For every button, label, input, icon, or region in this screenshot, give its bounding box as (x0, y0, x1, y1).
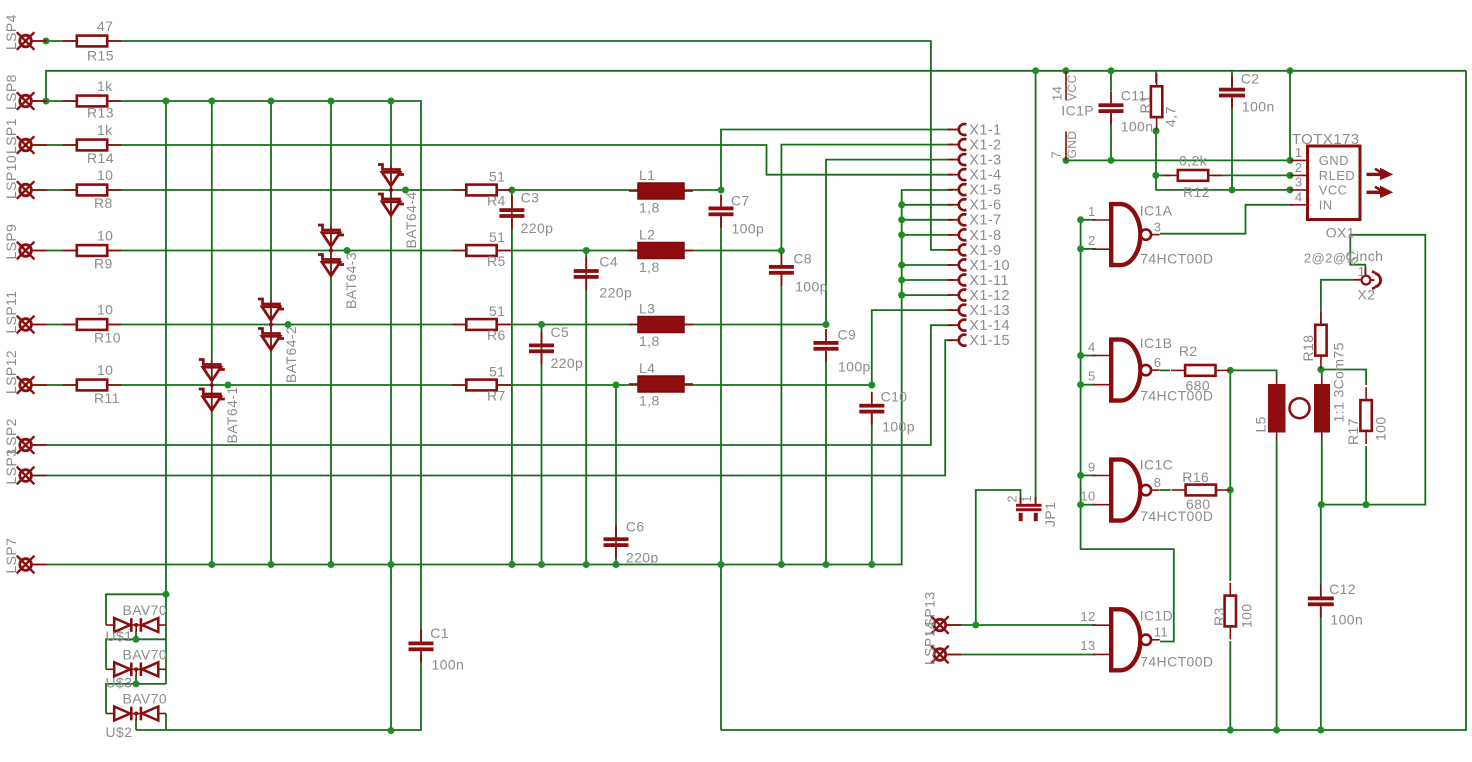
svg-text:8: 8 (1154, 475, 1162, 490)
wire LSP14 row (946, 654, 1096, 656)
svg-text:TOTX173: TOTX173 (1292, 131, 1360, 148)
junction LSP13 (972, 622, 979, 629)
connector pin X1-6 (948, 198, 1002, 214)
svg-text:47: 47 (97, 18, 113, 34)
svg-text:R13: R13 (87, 105, 114, 121)
svg-text:IC1A: IC1A (1140, 203, 1173, 219)
svg-text:100p: 100p (882, 419, 915, 435)
junction gnd rail (388, 561, 395, 568)
connector pin X1-5 (948, 183, 1002, 199)
resistor R2 () (1171, 365, 1229, 376)
inductor L2 (1,8) (629, 227, 693, 276)
pad LSP4 (17, 32, 47, 50)
pad LSP14 (931, 646, 961, 664)
connector pin X1-9 (948, 243, 1002, 259)
junction gnd rail (538, 561, 545, 568)
svg-text:C4: C4 (599, 254, 618, 270)
junction L2 row (344, 247, 351, 254)
dual schottky diode BAT64-4 (378, 165, 419, 249)
resistor R17 (1360, 387, 1371, 444)
wire ground tap X1-11 (902, 279, 953, 281)
svg-text:R2: R2 (1179, 343, 1198, 359)
svg-text:1k: 1k (97, 78, 113, 94)
svg-text:GND: GND (1319, 153, 1349, 168)
jumper JP1 (1006, 495, 1059, 527)
wire R3 bottom to rail (1229, 641, 1231, 730)
power pin IC1P GND (pin 7) (1049, 131, 1080, 161)
svg-text:10: 10 (97, 302, 113, 318)
svg-text:100n: 100n (1242, 99, 1275, 115)
svg-text:X1-7: X1-7 (969, 213, 1001, 229)
junction VCC row (1287, 186, 1294, 193)
resistor R13 (1k) (63, 78, 121, 121)
pad LSP13 (931, 616, 961, 634)
svg-text:LSP11: LSP11 (3, 291, 19, 334)
junction gnd X1 bus (898, 262, 905, 269)
connector X2 (Cinch) (1354, 268, 1381, 289)
connector pin X1-2 (948, 137, 1002, 153)
svg-text:Cinch: Cinch (1346, 248, 1384, 264)
svg-text:C10: C10 (881, 389, 908, 405)
resistor R3 (1225, 583, 1236, 640)
junction L2 row (778, 247, 785, 254)
resistor R8 (10) (63, 167, 121, 211)
svg-text:74HCT00D: 74HCT00D (1140, 388, 1213, 404)
junction LSP8 (268, 98, 275, 105)
pad LSP8 (17, 92, 47, 110)
connector pin X1-1 (948, 122, 1002, 138)
svg-text:C12: C12 (1329, 581, 1356, 597)
svg-text:L1: L1 (639, 167, 655, 183)
junction gnd X1 bus (898, 216, 905, 223)
wire U$2 loop (106, 684, 166, 714)
svg-text:BAT64-3: BAT64-3 (343, 252, 359, 309)
connector pin X1-7 (948, 213, 1002, 229)
junction gnd rail (268, 561, 275, 568)
wire L4 row (32, 384, 872, 386)
svg-text:C3: C3 (521, 190, 540, 206)
svg-text:L5: L5 (1253, 416, 1269, 432)
wire C6 column (615, 385, 617, 565)
junction VCC rail (1287, 67, 1294, 74)
svg-text:100n: 100n (432, 657, 465, 673)
svg-text:100n: 100n (1330, 612, 1363, 628)
connector pin X1-14 (948, 318, 1011, 334)
svg-text:14: 14 (1050, 86, 1065, 101)
svg-text:1k: 1k (97, 122, 113, 138)
wire ground tap X1-12 (902, 294, 953, 296)
wire U$3 right leg (165, 639, 167, 684)
svg-text:R17: R17 (1345, 418, 1361, 445)
wire LSP1 row to X1-4 (32, 145, 953, 175)
svg-text:LSP9: LSP9 (3, 224, 19, 260)
svg-text:X2: X2 (1358, 287, 1376, 303)
junction LSP8 (163, 98, 170, 105)
wire LSP8 row (32, 101, 421, 642)
svg-text:U$2: U$2 (106, 724, 133, 740)
junction gnd rail (778, 561, 785, 568)
resistor R18 (1315, 312, 1326, 369)
wire LSP2 row to X1-14 (32, 325, 953, 445)
svg-text:1:1 3Com75: 1:1 3Com75 (1331, 342, 1347, 422)
nand gate IC1C (74HCT00) (1080, 457, 1213, 525)
capacitor C6 (220p) (604, 519, 659, 566)
svg-text:R11: R11 (94, 390, 120, 406)
svg-text:IC1D: IC1D (1140, 608, 1174, 624)
resistor R12 () (1164, 170, 1222, 181)
pad LSP2 (17, 436, 47, 454)
svg-text:IC1P: IC1P (1061, 103, 1094, 119)
svg-text:220p: 220p (551, 355, 584, 371)
junction LSP8 (328, 98, 335, 105)
svg-text:C2: C2 (1241, 71, 1260, 87)
svg-text:C6: C6 (626, 519, 645, 535)
dual diode U$1 (BAV70) (106, 602, 168, 644)
dual schottky diode BAT64-1 (199, 360, 240, 444)
wire IC1B out to R2 (1160, 369, 1170, 371)
junction BAV70 (133, 636, 140, 643)
junction gnd rail (328, 561, 335, 568)
svg-text:100p: 100p (838, 359, 871, 375)
svg-text:1: 1 (1020, 495, 1034, 502)
wire LSP13 row (946, 624, 1096, 626)
junction gnd rail (208, 561, 215, 568)
wire JP1 pin1 riser (1035, 71, 1037, 500)
svg-text:X1-8: X1-8 (969, 228, 1001, 244)
junction VCC rail (1062, 67, 1069, 74)
svg-text:X1-3: X1-3 (969, 153, 1001, 169)
svg-text:C8: C8 (793, 251, 812, 267)
pad LSP10 (17, 181, 47, 199)
svg-text:220p: 220p (599, 285, 632, 301)
wire C2 bottom riser (1231, 99, 1233, 190)
wire IC1B in1 tap (1081, 355, 1096, 357)
svg-text:74HCT00D: 74HCT00D (1140, 251, 1213, 267)
svg-text:LSP14: LSP14 (922, 621, 938, 665)
svg-text:100p: 100p (795, 279, 828, 295)
wire L5 right top to R18 (1320, 370, 1323, 378)
svg-text:IC1B: IC1B (1140, 335, 1173, 351)
junction bottom rail (1227, 727, 1234, 734)
wire R12 to TOTX pin2 (1212, 174, 1293, 176)
dual schottky diode BAT64-3 (318, 225, 359, 309)
svg-text:X1-11: X1-11 (969, 273, 1009, 289)
svg-text:R9: R9 (94, 256, 113, 272)
wire BAT64-2 column (270, 101, 272, 565)
wire IC1C out to R16 (1160, 489, 1171, 491)
junction gate bus (1077, 501, 1084, 508)
wire IC1P GND rail (1066, 159, 1293, 161)
junction VCC row (1229, 186, 1236, 193)
junction L3 row (285, 321, 292, 328)
resistor R4 (51) (452, 169, 510, 209)
junction gate bus (1077, 245, 1084, 252)
TOTX pin1 riser (1289, 71, 1291, 161)
wire ground tap X1-7 (902, 219, 953, 221)
junction bottom rail (1273, 727, 1280, 734)
wire R1 top stub (1155, 71, 1157, 83)
junction L1 row (508, 187, 515, 194)
resistor R11 (10) (63, 362, 121, 406)
wire R16 out (1230, 489, 1231, 491)
svg-text:X1-13: X1-13 (969, 303, 1010, 319)
capacitor C4 (220p) (574, 254, 632, 301)
svg-text:BAV70: BAV70 (123, 646, 168, 662)
svg-text:51: 51 (489, 229, 505, 245)
svg-text:L4: L4 (639, 360, 655, 376)
junction gnd X1 bus (898, 277, 905, 284)
junction L2 row (583, 247, 590, 254)
resistor R9 (10) (63, 228, 121, 272)
junction LSP8 (388, 98, 395, 105)
inductor L1 (1,8) (629, 167, 693, 216)
svg-text:12: 12 (1080, 609, 1095, 624)
svg-text:R7: R7 (487, 388, 506, 404)
connector pin X1-12 (948, 288, 1011, 304)
svg-text:1,8: 1,8 (639, 393, 660, 409)
svg-text:R18: R18 (1300, 335, 1316, 362)
svg-text:1,8: 1,8 (639, 259, 660, 275)
wire C4 column (585, 251, 587, 565)
svg-text:BAT64-2: BAT64-2 (283, 326, 299, 383)
wire BAT64-3 column (330, 101, 332, 565)
svg-text:X1-4: X1-4 (969, 168, 1001, 184)
wire L5 right bottom / C12 column (1321, 439, 1322, 585)
svg-text:11: 11 (1154, 625, 1168, 640)
svg-text:X1-2: X1-2 (969, 137, 1001, 153)
svg-text:10: 10 (97, 228, 113, 244)
junction gate bus (1077, 352, 1084, 359)
junction gnd rail (613, 561, 620, 568)
svg-text:100n: 100n (1121, 119, 1154, 135)
svg-text:100: 100 (1373, 416, 1389, 441)
wire C10 lower column (871, 413, 873, 564)
svg-text:220p: 220p (626, 550, 659, 566)
wire C11 column top (1110, 71, 1112, 91)
connector pin X1-15 (948, 333, 1011, 349)
light arrow 1 (1367, 168, 1393, 179)
nand gate IC1D (74HCT00) (1080, 608, 1213, 671)
svg-text:10: 10 (1080, 488, 1095, 503)
junction gate bus (1077, 216, 1084, 223)
svg-text:IC1C: IC1C (1140, 457, 1174, 473)
wire U$3 centre stub (135, 675, 137, 684)
junction gnd rail (823, 561, 830, 568)
capacitor C11 (100n) (1099, 88, 1154, 135)
svg-text:4: 4 (1088, 340, 1096, 355)
wire U$2 right leg (165, 714, 167, 731)
svg-text:U$1: U$1 (106, 628, 133, 644)
wire C11 column bottom (1110, 113, 1112, 160)
svg-text:X1-5: X1-5 (969, 183, 1001, 199)
junction L1 row (402, 187, 409, 194)
svg-text:9: 9 (1088, 460, 1096, 475)
svg-text:BAV70: BAV70 (123, 691, 168, 707)
resistor R7 (51) (452, 364, 510, 404)
wire U$1 loop (106, 594, 166, 625)
capacitor C1 (100n) (409, 625, 465, 673)
svg-text:X1-10: X1-10 (969, 258, 1010, 274)
junction L4 row (613, 382, 620, 389)
junction VCC rail (1108, 67, 1115, 74)
junction gnd X1 bus (898, 201, 905, 208)
svg-text:VCC: VCC (1065, 74, 1079, 101)
resistor R15 (47) (63, 18, 121, 64)
junction gnd rail (718, 561, 725, 568)
svg-text:2: 2 (1088, 233, 1096, 248)
svg-text:LSP12: LSP12 (3, 350, 19, 394)
junction gnd rail (508, 561, 515, 568)
svg-text:51: 51 (489, 303, 505, 319)
resistor R5 (51) (452, 229, 510, 269)
wire C3 column (511, 190, 513, 565)
wire RLED row (1156, 131, 1170, 175)
svg-text:100p: 100p (732, 221, 765, 237)
capacitor C9 (100p) (814, 327, 871, 375)
svg-text:R16: R16 (1182, 469, 1209, 485)
wire LSP7 ground rail (32, 190, 953, 565)
wire U$1 right leg (165, 594, 167, 639)
wire C9 lower column (825, 352, 827, 565)
wire R18 top to X2 pin1 (1321, 280, 1354, 340)
transformer L5 (1:1 3Com75) (1253, 342, 1347, 439)
connector pin X1-8 (948, 228, 1002, 244)
svg-text:7: 7 (1049, 151, 1064, 159)
wire L1 row (32, 189, 721, 191)
capacitor C5 (220p) (529, 324, 583, 371)
wire ground tap X1-8 (902, 234, 953, 236)
connector pin X1-10 (948, 258, 1011, 274)
wire U$1 centre stub (135, 631, 137, 639)
svg-text:0,2k: 0,2k (1179, 153, 1208, 169)
junction BAV70 (133, 680, 140, 687)
wire ground tap X1-10 (902, 264, 953, 266)
svg-text:51: 51 (489, 169, 505, 185)
svg-text:X1-15: X1-15 (969, 333, 1010, 349)
resistor R10 (10) (63, 302, 121, 346)
svg-text:LSP7: LSP7 (3, 538, 19, 574)
svg-text:5: 5 (1088, 368, 1096, 383)
svg-text:220p: 220p (521, 220, 554, 236)
svg-text:BAV70: BAV70 (123, 602, 168, 618)
svg-text:BAT64-4: BAT64-4 (403, 191, 419, 248)
pad LSP11 (17, 316, 47, 334)
svg-text:R3: R3 (1211, 607, 1227, 626)
wire C7 lower column (720, 217, 722, 730)
svg-text:LSP8: LSP8 (3, 74, 19, 110)
wire IC1C in1 tap (1081, 474, 1096, 476)
dual diode U$2 (BAV70) (106, 691, 168, 741)
wire R2 R16 link (1229, 370, 1231, 581)
wire BAT64-4 column (390, 101, 392, 731)
junction gate bus (1077, 472, 1084, 479)
svg-text:1: 1 (1088, 204, 1096, 219)
svg-text:LSP2: LSP2 (3, 418, 19, 454)
junction X2 node (1363, 501, 1370, 508)
svg-text:U$3: U$3 (106, 675, 133, 691)
wire X2 to R17 node (1321, 235, 1425, 505)
junction gnd rail (583, 561, 590, 568)
connector pin X1-11 (948, 273, 1009, 289)
connector pin X1-13 (948, 303, 1011, 319)
capacitor C10 (100p) (859, 389, 915, 435)
junction L1 row (718, 187, 725, 194)
junction RLED (1153, 128, 1160, 135)
svg-text:C1: C1 (430, 625, 449, 641)
svg-text:3: 3 (1154, 219, 1162, 234)
svg-text:LSP3: LSP3 (3, 449, 19, 485)
wire X1-1 riser (721, 130, 953, 191)
svg-text:100: 100 (1239, 603, 1255, 628)
wire IC1A in2 tap (1081, 248, 1096, 250)
svg-text:LSP4: LSP4 (3, 14, 19, 50)
junction X2 node (1318, 501, 1325, 508)
wire VCC rail (46, 71, 1466, 101)
junction VCC rail (1032, 67, 1039, 74)
optical transmitter OX1 (TOTX173) (1006, 71, 1393, 527)
pad LSP12 (17, 376, 47, 394)
junction BAV70 (163, 591, 170, 598)
wire R2 to L5 (1230, 370, 1276, 377)
wire IC1A in1 tap (1081, 219, 1096, 221)
junction gnd rail (868, 561, 875, 568)
svg-text:RLED: RLED (1319, 168, 1355, 183)
wire BAT64-1 column (211, 101, 213, 565)
svg-text:R12: R12 (1183, 184, 1210, 200)
svg-text:BAT64-1: BAT64-1 (224, 386, 240, 443)
svg-text:1,8: 1,8 (639, 333, 660, 349)
wire X1-2 riser (781, 145, 953, 251)
wire U$3 loop (106, 639, 166, 669)
junction L3 row (538, 321, 545, 328)
junction bottom rail (1317, 727, 1324, 734)
capacitor C3 (220p) (499, 190, 553, 237)
junction gnd X1 bus (898, 292, 905, 299)
junction LSP4 (43, 38, 50, 45)
junction R2 out (1227, 367, 1234, 374)
svg-text:R14: R14 (87, 150, 114, 166)
svg-text:51: 51 (489, 364, 505, 380)
svg-text:LSP10: LSP10 (3, 155, 19, 199)
connector pin X1-3 (948, 153, 1002, 169)
wire U$2 centre stub (135, 719, 137, 730)
svg-text:3: 3 (1295, 174, 1303, 189)
wire VCC row to TOTX pin3 (1156, 175, 1293, 190)
capacitor C2 (100n) (1219, 71, 1275, 115)
svg-text:4,7: 4,7 (1163, 106, 1179, 127)
svg-text:6: 6 (1154, 355, 1162, 370)
svg-text:X1-6: X1-6 (969, 198, 1001, 214)
svg-text:74HCT00D: 74HCT00D (1140, 508, 1213, 524)
svg-text:C7: C7 (731, 193, 750, 209)
svg-text:R10: R10 (94, 330, 121, 346)
svg-text:10: 10 (97, 362, 113, 378)
resistor R6 (51) (452, 303, 510, 343)
wire C1 bottom to ground rail (136, 654, 421, 730)
wire IC1A out to TOTX IN (1160, 205, 1293, 234)
svg-text:LSP1: LSP1 (3, 118, 19, 154)
wire right border net (721, 71, 1466, 730)
nand gate IC1A (74HCT00) (1088, 203, 1213, 267)
wire C5 column (541, 325, 543, 565)
wire LSP4 net row (32, 41, 953, 250)
wire JP1 pin2 net from LSP13 (976, 490, 1021, 625)
svg-text:IN: IN (1319, 198, 1333, 213)
svg-text:R15: R15 (87, 48, 114, 64)
svg-text:R1: R1 (1137, 95, 1153, 114)
svg-text:X1-9: X1-9 (969, 243, 1001, 259)
connector pin X1-4 (948, 168, 1002, 184)
